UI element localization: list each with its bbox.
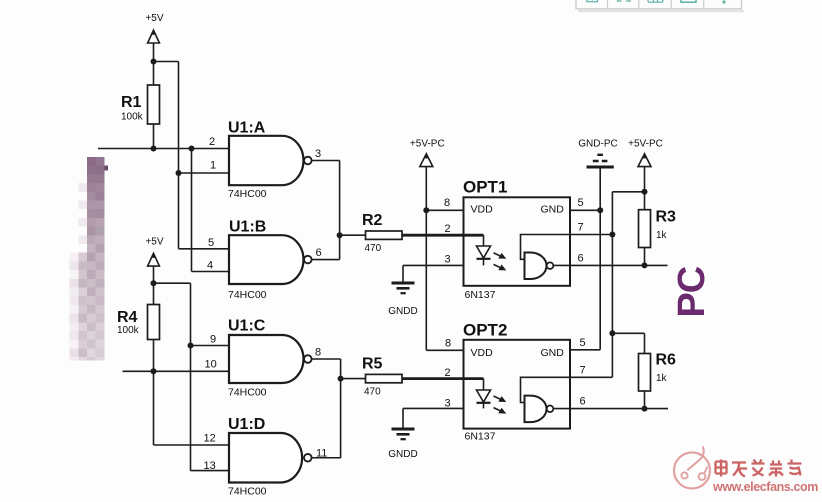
resistor R1 [148, 85, 160, 124]
toolbar icon 1 (import) [587, 0, 598, 2]
node R6 branch [609, 330, 615, 336]
wire net B to pin 12 [153, 371, 155, 445]
svg-text:3: 3 [445, 254, 451, 266]
wire pin 12 [154, 444, 230, 446]
node R4/net B [151, 368, 157, 374]
svg-text:74HC00: 74HC00 [228, 289, 267, 301]
toolbar icon 3 (printer) [648, 0, 663, 2]
svg-text:100k: 100k [117, 325, 140, 336]
svg-text:R1: R1 [121, 94, 142, 111]
optocoupler OPT1 box [464, 197, 571, 285]
svg-text:470: 470 [365, 243, 382, 254]
resistor R5 [366, 374, 403, 382]
svg-text:11: 11 [316, 448, 327, 460]
toolbar icon 5 (move) [719, 0, 730, 4]
svg-text:VDD: VDD [471, 204, 494, 216]
wire pin7 feed vertical [611, 192, 613, 333]
svg-text:6N137: 6N137 [465, 289, 496, 301]
wire pin3 to GNDD (OPT2) [402, 408, 404, 428]
power +5V (bottom) [145, 237, 163, 267]
ground GND-PC symbol [578, 139, 617, 168]
op-gate U1:A (NAND) [229, 136, 312, 185]
svg-text:OPT1: OPT1 [463, 178, 507, 197]
wire to R2 [340, 234, 366, 236]
op-gate U1:B (NAND) [229, 235, 312, 284]
watermark logo circle [674, 447, 710, 489]
svg-text:OPT2: OPT2 [463, 321, 507, 340]
op-gate U1:D (NAND) [229, 433, 312, 483]
wire R2 to OPT1 pin2 (thick) [402, 234, 484, 237]
svg-text:5: 5 [580, 337, 586, 349]
node R3 bottom [642, 262, 648, 268]
toolbar icon 2 (brackets) [618, 0, 631, 1]
wire pin 9 [191, 345, 230, 347]
svg-text:13: 13 [204, 460, 216, 472]
svg-text:74HC00: 74HC00 [228, 188, 267, 200]
svg-text:6: 6 [578, 253, 584, 265]
wire R4 to net B [153, 340, 155, 372]
wire pin 1 [179, 172, 230, 174]
svg-text:9: 9 [210, 334, 216, 346]
wire OPT2 pin 3 [403, 407, 464, 409]
wire A-out to B-out vertical [339, 161, 341, 260]
svg-text:R2: R2 [362, 212, 383, 229]
svg-text:8: 8 [315, 347, 321, 359]
wire pin3 to GNDD [402, 265, 404, 282]
node +5V branch (pins 9,13) [151, 280, 157, 286]
svg-text:R4: R4 [117, 309, 138, 326]
node pin7/+5V-PC vertical [609, 232, 615, 238]
toolbar (partial, cut off at top) [576, 0, 744, 11]
wire OPT2 pin 7 [570, 376, 612, 378]
node R2 tap [337, 232, 343, 238]
svg-text:470: 470 [364, 387, 381, 398]
svg-text:2: 2 [209, 136, 215, 148]
LED light arrows (OPT1) [494, 253, 507, 271]
wire OPT1 pin 8 [426, 209, 463, 211]
svg-text:VDD: VDD [471, 347, 494, 359]
wire R5 to OPT2 pin2 (thick) [402, 377, 484, 380]
pixelated mosaic watermark strip [70, 157, 108, 361]
diode LED (OPT1) [477, 235, 491, 265]
wire to R6 top [612, 332, 644, 334]
svg-text:8: 8 [445, 338, 451, 350]
wire C-out to D-out vertical [340, 359, 342, 458]
svg-text:U1:C: U1:C [228, 318, 266, 335]
wire +5V to R1 [153, 43, 155, 85]
svg-text:5: 5 [578, 197, 584, 209]
svg-text:R5: R5 [362, 356, 383, 373]
toolbar icon 4 (frame) [681, 0, 696, 2]
svg-text:U1:B: U1:B [229, 219, 266, 236]
svg-text:www.elecfans.com: www.elecfans.com [712, 480, 818, 494]
node junction +5V/R1 branch [151, 59, 157, 65]
svg-text:74HC00: 74HC00 [228, 486, 267, 498]
svg-text:100k: 100k [121, 112, 144, 123]
wire U1:D output [312, 457, 341, 459]
svg-text:GNDD: GNDD [388, 306, 417, 317]
svg-text:R3: R3 [656, 209, 677, 226]
wire U1:A output [312, 160, 340, 162]
wire branch to pins 1,5 [154, 61, 179, 63]
svg-text:2: 2 [445, 367, 451, 379]
node OPT1 pin8 junction [423, 207, 429, 213]
node R5 tap [338, 376, 344, 382]
wire branch right [154, 282, 191, 284]
wire +5V-PC to R3 [644, 167, 646, 210]
svg-text:U1:A: U1:A [228, 120, 266, 137]
wire net A (input net, pin 2) [98, 148, 229, 150]
diode LED (OPT2) [477, 379, 491, 409]
svg-text:U1:D: U1:D [228, 416, 265, 433]
wire +5V-PC down to OPT pin8s [425, 167, 427, 351]
detector gate (OPT2) [521, 377, 571, 422]
svg-text:7: 7 [580, 365, 586, 377]
wire OPT1 pin 7 [570, 234, 612, 236]
power +5V-PC (right) [628, 139, 663, 167]
svg-text:R6: R6 [656, 352, 677, 369]
wire vertical feed pins 9,13 [190, 283, 192, 470]
resistor R2 [366, 231, 403, 239]
svg-text:5: 5 [208, 237, 214, 249]
svg-text:GND-PC: GND-PC [578, 139, 617, 150]
wire down to OPT2 pin7 [611, 333, 613, 377]
wire U1:B output [312, 259, 340, 261]
wire R6 bottom lead [644, 391, 646, 409]
svg-text:GND: GND [541, 204, 565, 216]
wire pin 5 [179, 248, 230, 250]
power +5V-PC (OPT supply) [410, 139, 445, 167]
watermark chinese characters 电子发烧友 [716, 460, 727, 477]
svg-text:3: 3 [315, 148, 321, 160]
wire OPT2 pin 5 [570, 349, 600, 351]
wire GND-PC vertical [599, 169, 601, 350]
svg-text:7: 7 [578, 222, 584, 234]
svg-text:6: 6 [580, 396, 586, 408]
optocoupler OPT2 box [464, 340, 571, 429]
power +5V (top) [145, 13, 163, 43]
svg-text:10: 10 [205, 359, 217, 371]
op-gate U1:C (NAND) [229, 335, 312, 383]
wire branch to pin7 vertical [612, 191, 644, 193]
ground GNDD (OPT1) [392, 283, 415, 293]
node R6 bottom [642, 406, 648, 412]
node pin9 junction [188, 343, 194, 349]
svg-text:6: 6 [316, 247, 322, 259]
wire vertical feed pins 1,5 [178, 62, 180, 249]
resistor R3 [639, 210, 651, 248]
wire OPT2 pin 8 [426, 349, 463, 351]
node pin1 junction [176, 170, 182, 176]
svg-text:6N137: 6N137 [465, 431, 496, 443]
svg-text:74HC00: 74HC00 [228, 387, 267, 399]
wire pin 13 [191, 470, 230, 472]
wire +5V to R4 [153, 266, 155, 304]
node net A / pin4 branch [189, 146, 195, 152]
svg-text:+5V-PC: +5V-PC [410, 139, 445, 150]
svg-text:GNDD: GNDD [388, 449, 417, 460]
wire to R5 [341, 378, 366, 380]
wire OPT1 pin 5 [570, 209, 600, 211]
wire OPT1 pin 3 [403, 264, 464, 266]
detector gate (OPT1) [521, 235, 571, 280]
svg-text:+5V: +5V [145, 13, 163, 24]
svg-text:+5V-PC: +5V-PC [628, 139, 663, 150]
svg-text:+5V: +5V [145, 237, 163, 248]
svg-text:PC: PC [671, 266, 713, 317]
svg-text:GND: GND [541, 347, 565, 359]
resistor R6 [639, 354, 651, 392]
node +5V-PC/R3 top [642, 189, 648, 195]
node R1/net A [151, 146, 157, 152]
wire R1 to net A [153, 124, 155, 149]
node pin5/GND-PC [597, 207, 603, 213]
svg-text:1k: 1k [656, 373, 668, 384]
svg-text:12: 12 [204, 433, 216, 445]
svg-text:4: 4 [207, 260, 213, 272]
wire net B (input net, pin 10) [123, 370, 230, 372]
svg-text:2: 2 [445, 223, 451, 235]
ground GNDD (OPT2) [392, 429, 415, 439]
resistor R4 [148, 305, 160, 340]
wire net A to pin 4 [191, 149, 193, 272]
LED light arrows (OPT2) [494, 396, 507, 414]
wire OPT1 pin 6 output [570, 264, 668, 266]
wire R6 top lead [644, 333, 646, 353]
wire U1:C output [312, 358, 341, 360]
svg-text:8: 8 [444, 197, 450, 209]
svg-text:1: 1 [210, 160, 216, 172]
wire OPT2 pin 6 output [570, 408, 668, 410]
svg-text:1k: 1k [656, 230, 668, 241]
wire pin 4 [192, 271, 230, 273]
wire R3 bottom [644, 248, 646, 266]
